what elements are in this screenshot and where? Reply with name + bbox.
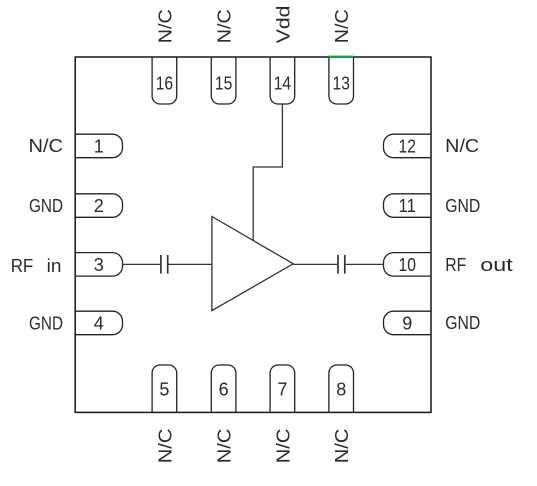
svg-text:15: 15 [215, 74, 232, 94]
package outline U1 [75, 57, 431, 412]
capacitor C2 [338, 255, 345, 274]
svg-text:N/C: N/C [445, 136, 479, 156]
Vdd wire from pin 14 [253, 105, 282, 241]
svg-text:4: 4 [94, 314, 104, 334]
pin 10 [384, 253, 432, 277]
svg-text:GND: GND [445, 313, 480, 333]
svg-text:GND: GND [29, 314, 63, 334]
svg-text:10: 10 [399, 255, 416, 275]
wire C1 to amplifier [169, 263, 212, 265]
pin 13 green edge segment [328, 56, 354, 58]
svg-text:N/C: N/C [273, 429, 293, 464]
svg-text:N/C: N/C [155, 429, 175, 464]
pin 16 [152, 57, 177, 105]
svg-text:RF: RF [11, 256, 34, 276]
svg-text:N/C: N/C [332, 9, 352, 43]
pin 13 [329, 57, 354, 105]
label RF out pin10 [445, 255, 513, 275]
svg-text:N/C: N/C [155, 9, 175, 43]
svg-text:2: 2 [94, 196, 104, 216]
pin 8 [329, 365, 354, 413]
svg-text:6: 6 [219, 380, 229, 400]
svg-text:8: 8 [336, 380, 346, 400]
svg-text:16: 16 [156, 74, 173, 94]
svg-text:RF: RF [445, 255, 466, 275]
svg-text:5: 5 [159, 380, 169, 400]
pin 14 [270, 57, 295, 105]
pin 2 [75, 194, 123, 218]
svg-text:1: 1 [94, 137, 104, 157]
svg-text:9: 9 [402, 314, 412, 334]
svg-text:in: in [47, 256, 62, 276]
svg-text:GND: GND [29, 196, 63, 216]
svg-text:11: 11 [399, 196, 416, 216]
op-amp U1 triangle [212, 217, 293, 311]
pin 1 [75, 134, 123, 158]
pin 6 [211, 365, 236, 413]
svg-text:13: 13 [333, 74, 350, 94]
svg-text:7: 7 [277, 380, 287, 400]
pin 12 [384, 134, 432, 158]
svg-text:14: 14 [274, 74, 291, 94]
pin 15 [211, 57, 236, 105]
pin 11 [384, 194, 432, 218]
svg-text:N/C: N/C [332, 429, 352, 464]
svg-text:N/C: N/C [215, 9, 235, 43]
pin 7 [270, 365, 295, 413]
wire amplifier to C2 [293, 263, 337, 265]
svg-text:out: out [480, 255, 512, 275]
svg-text:3: 3 [94, 255, 104, 275]
pin 4 [75, 311, 123, 335]
svg-text:GND: GND [445, 196, 480, 216]
pin 3 [75, 253, 123, 277]
pin 5 [152, 365, 177, 413]
svg-text:N/C: N/C [29, 136, 64, 156]
wire pin3 to C1 [123, 263, 161, 265]
svg-text:Vdd: Vdd [273, 6, 293, 44]
wire C2 to pin 10 [346, 263, 384, 265]
label RF in pin3 [11, 256, 62, 276]
svg-text:N/C: N/C [215, 429, 235, 464]
pin 9 [384, 311, 432, 335]
svg-text:12: 12 [399, 137, 416, 157]
capacitor C1 [161, 255, 168, 274]
